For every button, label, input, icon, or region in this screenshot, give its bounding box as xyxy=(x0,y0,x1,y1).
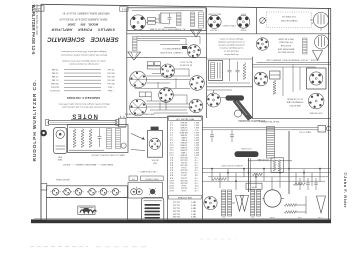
male plug label xyxy=(299,131,311,134)
tone box pot xyxy=(121,143,126,148)
relay divider xyxy=(252,118,330,120)
svg-text:C-27 FILTER: C-27 FILTER xyxy=(241,147,252,149)
socket 6V6 xyxy=(237,15,250,28)
row B wires xyxy=(146,95,189,113)
svg-text:socket diagrams shown at: socket diagrams shown at xyxy=(219,47,243,50)
phantom pot xyxy=(260,18,266,24)
svg-text:200 V: 200 V xyxy=(193,133,199,135)
svg-text:6V6GT: 6V6GT xyxy=(240,28,247,30)
svg-text:200-220: 200-220 xyxy=(173,209,180,211)
motor unit box xyxy=(147,131,162,158)
capacitor C7 xyxy=(298,178,302,190)
filter slab label xyxy=(241,147,252,149)
switch boxes xyxy=(148,17,156,24)
svg-text:TWIN SOCKETS: TWIN SOCKETS xyxy=(222,24,236,26)
svg-text:400 Volt: 400 Volt xyxy=(107,71,115,74)
parts table header xyxy=(169,117,202,121)
svg-text:8 MFD: 8 MFD xyxy=(180,138,186,140)
svg-text:C-13: C-13 xyxy=(169,151,173,153)
resistor R7 xyxy=(284,211,296,214)
svg-text:TAP 3: TAP 3 xyxy=(191,207,196,210)
svg-text:CONNECT FOR A SPKR.: CONNECT FOR A SPKR. xyxy=(159,51,183,54)
svg-text:16 MFD: 16 MFD xyxy=(180,149,187,151)
svg-text:©John F. Rider: ©John F. Rider xyxy=(343,173,348,209)
svg-text:250,000: 250,000 xyxy=(180,181,187,183)
page number stamp top-left xyxy=(33,6,45,11)
svg-text:.02 MFD: .02 MFD xyxy=(180,141,188,143)
relay bottom label xyxy=(309,111,322,113)
svg-text:TOP VIEW OF: TOP VIEW OF xyxy=(281,15,296,17)
socket 6V6 labels xyxy=(240,13,247,31)
svg-text:Letters on socket diagrams ref: Letters on socket diagrams refer to list… xyxy=(62,59,106,62)
relay caption xyxy=(260,120,279,123)
end shield view xyxy=(54,128,67,154)
main vertical feeders xyxy=(249,131,290,194)
svg-text:220-240: 220-240 xyxy=(173,212,180,214)
tone box wires xyxy=(69,127,126,150)
svg-text:C-31: C-31 xyxy=(318,216,322,218)
svg-text:— MOTOR BOARD —: — MOTOR BOARD — xyxy=(138,170,158,173)
svg-text:400 V: 400 V xyxy=(193,154,199,156)
notes AVERAGE DC VOLTAGES xyxy=(67,96,100,100)
svg-text:006 Mfd: 006 Mfd xyxy=(50,82,58,84)
capacitor C6 xyxy=(230,130,234,142)
motor board knob pair xyxy=(131,187,143,195)
svg-text:and storage of component parts: and storage of component parts xyxy=(69,63,98,66)
transformer T1 windings xyxy=(177,12,195,27)
svg-text:ALL DC VOLT.: ALL DC VOLT. xyxy=(179,61,192,64)
svg-text:TAP 2: TAP 2 xyxy=(191,204,196,207)
svg-text:2 W: 2 W xyxy=(195,184,199,186)
louver box xyxy=(142,198,164,221)
svg-text:R-6: R-6 xyxy=(170,169,173,171)
power column dividers xyxy=(207,34,253,119)
svg-text:RADIO & TONE CONTROL CIRCUIT: RADIO & TONE CONTROL CIRCUIT xyxy=(91,153,125,156)
tone box resistors xyxy=(73,129,92,148)
svg-text:500,000: 500,000 xyxy=(180,159,187,161)
svg-text:125-135: 125-135 xyxy=(173,207,180,209)
row A terminal boxes xyxy=(147,62,160,69)
row A tube V8 xyxy=(190,76,205,91)
front view caption xyxy=(56,178,70,180)
power box label xyxy=(148,27,185,30)
capacitor C1 xyxy=(168,13,172,24)
choke coil xyxy=(303,38,308,54)
control label boxes xyxy=(129,176,163,181)
svg-text:.25 MFD: .25 MFD xyxy=(180,154,188,156)
svg-text:R-9: R-9 xyxy=(170,176,173,178)
svg-text:450 V: 450 V xyxy=(193,138,199,140)
parts table rows xyxy=(169,121,200,193)
motor board box xyxy=(128,182,162,198)
bus taps xyxy=(212,169,320,190)
svg-text:R-8: R-8 xyxy=(170,174,173,176)
svg-text:RUDOLPH WURLITZER CO.: RUDOLPH WURLITZER CO. xyxy=(32,79,38,161)
band2 lower divider xyxy=(127,56,207,58)
rect area top wires xyxy=(252,65,330,97)
schematic caption xyxy=(239,119,266,122)
svg-text:½ 6SQ7GT: ½ 6SQ7GT xyxy=(209,28,219,32)
svg-text:NOTES BELOW: NOTES BELOW xyxy=(277,51,294,53)
svg-text:TAP 1: TAP 1 xyxy=(191,201,196,204)
svg-text:400 V: 400 V xyxy=(193,143,199,145)
page frame xyxy=(31,4,331,223)
svg-text:TAP 5: TAP 5 xyxy=(191,212,196,215)
svg-text:½ Watt: ½ Watt xyxy=(107,89,114,93)
margin label WURLITZER PAGE 12-5 xyxy=(31,5,36,56)
svg-text:240-260: 240-260 xyxy=(173,215,180,217)
svg-text:UNIT: UNIT xyxy=(152,161,157,163)
svg-text:C-11: C-11 xyxy=(170,146,174,148)
svg-text:A-1: A-1 xyxy=(121,7,126,11)
motor board caption xyxy=(138,170,158,173)
panel body xyxy=(47,198,128,221)
svg-text:½ Watt: ½ Watt xyxy=(107,86,114,90)
svg-text:MODEL 580,581,301,800: MODEL 580,581,301,800 xyxy=(35,5,39,36)
svg-text:R-2: R-2 xyxy=(170,159,173,161)
svg-text:25 Volt: 25 Volt xyxy=(107,68,114,71)
svg-text:.02 MFD: .02 MFD xyxy=(180,123,188,125)
svg-text:.01 MFD: .01 MFD xyxy=(180,126,188,128)
row A tube V6 with cross xyxy=(130,71,147,88)
svg-text:.01 MFD: .01 MFD xyxy=(180,143,188,145)
svg-text:this page below: this page below xyxy=(224,53,239,56)
motor board dark knob xyxy=(149,188,156,195)
motor rotor xyxy=(149,138,160,149)
svg-text:05 Mfd: 05 Mfd xyxy=(51,71,58,73)
output ladder transformer xyxy=(267,127,275,159)
line voltage subtable header xyxy=(169,195,202,199)
parts table frame xyxy=(168,116,203,219)
mid box top rails xyxy=(202,128,318,130)
middle instructions text xyxy=(218,37,245,56)
tube V5 xyxy=(315,35,329,49)
svg-text:C-5: C-5 xyxy=(170,131,173,133)
rear view caption xyxy=(62,163,113,166)
svg-text:450 V: 450 V xyxy=(193,136,199,138)
svg-text:R-4: R-4 xyxy=(169,164,173,166)
capacitor C4 xyxy=(236,62,240,82)
svg-text:400 Volt: 400 Volt xyxy=(107,79,115,82)
svg-text:R-12: R-12 xyxy=(169,184,173,186)
svg-text:C-7: C-7 xyxy=(170,136,173,138)
header line MODEL 580 xyxy=(67,23,98,27)
relay resistor xyxy=(273,80,276,94)
resistor R2 xyxy=(243,63,246,80)
svg-text:8 MFD: 8 MFD xyxy=(180,136,186,138)
svg-text:1 W: 1 W xyxy=(195,166,199,168)
svg-text:.006 MFD: .006 MFD xyxy=(179,131,188,133)
svg-text:.1 MFD: .1 MFD xyxy=(180,151,187,153)
power transformer box xyxy=(209,61,223,81)
svg-text:RELAY MOUNTING: RELAY MOUNTING xyxy=(260,120,279,123)
tube V4 xyxy=(256,38,268,50)
tone control box xyxy=(68,125,128,153)
svg-text:VIEW: VIEW xyxy=(57,158,62,160)
svg-text:FILTER & OUTPUT UNIT: FILTER & OUTPUT UNIT xyxy=(220,164,242,166)
row B tube V10 xyxy=(159,88,174,103)
svg-text:AMPLIFIER SERIAL NUMBERS 801: AMPLIFIER SERIAL NUMBERS 801 & UP BY xyxy=(62,11,110,14)
motor captions xyxy=(151,159,158,164)
b-plus line xyxy=(248,158,292,161)
socket 6SQ7 labels xyxy=(207,13,221,33)
relay coil boxes xyxy=(270,71,281,79)
svg-text:C-6: C-6 xyxy=(170,133,173,135)
power column wires xyxy=(207,59,253,83)
output transformer T2 xyxy=(222,190,232,216)
panel emblem xyxy=(78,206,97,214)
svg-text:C-2: C-2 xyxy=(170,123,173,125)
svg-text:.05 MFD: .05 MFD xyxy=(180,146,188,148)
svg-text:NOTES: NOTES xyxy=(71,113,98,119)
svg-text:accepted equipment noted at: accepted equipment noted at xyxy=(218,43,245,46)
capacitor C2 dark label xyxy=(182,46,187,49)
svg-text:25,000: 25,000 xyxy=(181,161,187,163)
svg-text:Measure all DC voltages from c: Measure all DC voltages from chassis wit… xyxy=(58,102,109,105)
line voltage rows xyxy=(173,201,196,219)
row bottom line xyxy=(127,117,168,119)
resistor R1 xyxy=(159,13,162,23)
svg-text:25 Mfd: 25 Mfd xyxy=(51,68,58,70)
svg-text:AT SOCKETS: AT SOCKETS xyxy=(179,63,192,66)
svg-text:TAP 4: TAP 4 xyxy=(190,209,196,212)
svg-text:.05 MFD: .05 MFD xyxy=(180,133,188,135)
svg-text:AMPLIFIER SOCKET VOLTAGES: AMPLIFIER SOCKET VOLTAGES xyxy=(124,113,154,116)
svg-text:T-2: T-2 xyxy=(252,216,255,218)
speaker funnel xyxy=(128,52,141,60)
svg-text:.05 MFD: .05 MFD xyxy=(180,121,188,123)
svg-text:115-125: 115-125 xyxy=(173,204,180,206)
svg-text:01 Mfd: 01 Mfd xyxy=(51,79,58,81)
capacitor C8 xyxy=(306,178,310,190)
bottom wires xyxy=(232,196,306,214)
end shield label xyxy=(57,155,62,160)
svg-text:250,000: 250,000 xyxy=(180,169,187,171)
speaker circle xyxy=(264,190,281,207)
notes value list xyxy=(50,68,115,93)
svg-text:60 CYCLE RELAY: 60 CYCLE RELAY xyxy=(286,98,303,101)
svg-text:HELP IN CASE: HELP IN CASE xyxy=(278,37,294,40)
scan artifact dashes xyxy=(30,239,236,247)
phantom wires xyxy=(265,21,313,25)
svg-text:REAR VIEW —— AMPLIFIER CHASSIS: REAR VIEW —— AMPLIFIER CHASSIS —— FRONT xyxy=(62,163,113,166)
funnel right xyxy=(317,196,326,213)
field coil ladder xyxy=(133,37,138,51)
row B terminal boxes xyxy=(139,92,151,97)
resistor R6 xyxy=(284,204,296,207)
resistor R5 xyxy=(293,183,305,186)
socket chart dividers xyxy=(207,8,257,34)
svg-text:BOTTOM VIEW: BOTTOM VIEW xyxy=(309,111,322,113)
svg-text:105-115: 105-115 xyxy=(173,201,180,203)
svg-text:per volt meter with the line a: per volt meter with the line at 115 volt… xyxy=(62,106,107,109)
svg-text:C-1: C-1 xyxy=(170,121,173,123)
svg-text:150 V: 150 V xyxy=(193,149,199,151)
svg-text:OPERATING DATA: OPERATING DATA xyxy=(286,101,303,104)
svg-text:6SQ7 SOCKET: 6SQ7 SOCKET xyxy=(207,13,221,15)
svg-text:50,000: 50,000 xyxy=(181,171,187,173)
svg-text:350 Ω: 350 Ω xyxy=(181,174,187,176)
svg-text:400 V: 400 V xyxy=(193,126,199,128)
row B caption xyxy=(124,113,154,116)
svg-text:C-4: C-4 xyxy=(169,128,173,130)
relay socket bottom view xyxy=(308,93,324,109)
svg-text:C-10: C-10 xyxy=(169,143,173,145)
svg-text:10,000: 10,000 xyxy=(181,176,187,178)
svg-text:400 V: 400 V xyxy=(193,123,199,125)
row B tube V9 with cross xyxy=(130,99,147,116)
svg-text:R-13: R-13 xyxy=(169,186,173,188)
svg-text:as measured by the standard: as measured by the standard xyxy=(218,40,245,43)
svg-text:END: END xyxy=(57,155,62,157)
svg-text:400 Volt: 400 Volt xyxy=(107,75,115,78)
bus wires xyxy=(202,169,330,182)
svg-text:25 MFD: 25 MFD xyxy=(180,128,187,130)
filter wires xyxy=(207,90,232,98)
wires power box xyxy=(132,11,203,28)
chassis plug xyxy=(119,116,126,127)
filter slab xyxy=(235,151,259,157)
band divider line xyxy=(127,33,331,35)
svg-text:VOL: VOL xyxy=(131,177,135,179)
stamp top-right of header xyxy=(120,7,129,12)
notes paragraph 1 xyxy=(60,50,107,56)
rectifier tube V13 xyxy=(254,72,268,86)
filter tube V12 xyxy=(207,93,221,107)
svg-text:SPKR: SPKR xyxy=(269,216,275,218)
resistor R4 xyxy=(252,173,262,176)
svg-text:MOTOR: MOTOR xyxy=(151,159,158,161)
svg-text:SPKR: SPKR xyxy=(251,185,257,187)
candohm diagonal resistor xyxy=(233,99,252,120)
header title SERVICE SCHEMATIC xyxy=(47,36,119,43)
tube V3 xyxy=(187,45,200,58)
socket chart center label xyxy=(222,24,236,26)
svg-text:C-9: C-9 xyxy=(170,141,173,143)
capacitor C9 xyxy=(314,178,318,190)
output tube V14 xyxy=(204,196,217,209)
svg-text:3,500: 3,500 xyxy=(182,184,187,186)
header line SIMPLEX POWER AMPLIFIER xyxy=(51,27,115,31)
electrolytic slab xyxy=(226,95,245,100)
svg-text:(SPEAKER FIELD 2): (SPEAKER FIELD 2) xyxy=(162,47,181,50)
svg-text:25 V: 25 V xyxy=(194,128,199,130)
svg-text:TAP 6: TAP 6 xyxy=(191,215,196,218)
svg-text:400 V: 400 V xyxy=(193,121,199,123)
row B tube V11 xyxy=(189,99,203,113)
bias resistor box xyxy=(271,158,283,172)
male plug connector xyxy=(318,125,331,132)
motor arrows xyxy=(131,134,145,151)
svg-text:AMPLIFIER SEE: AMPLIFIER SEE xyxy=(277,47,294,50)
svg-text:600 V: 600 V xyxy=(193,131,199,133)
svg-text:1,500: 1,500 xyxy=(182,189,187,191)
svg-text:400 V: 400 V xyxy=(193,151,199,153)
svg-text:1 W: 1 W xyxy=(195,174,199,176)
help divider xyxy=(257,62,331,64)
phantom tube V2 xyxy=(310,12,329,30)
svg-text:R-7: R-7 xyxy=(170,171,173,173)
svg-text:R-11: R-11 xyxy=(170,181,174,183)
svg-text:½ W: ½ W xyxy=(194,189,198,193)
header line amplifier numbers xyxy=(62,11,110,14)
svg-text:25,000: 25,000 xyxy=(181,186,187,188)
phantom text xyxy=(280,15,297,22)
svg-text:SIMPLEX POWER AMPLIFIER: SIMPLEX POWER AMPLIFIER xyxy=(51,27,115,31)
relay box top view xyxy=(307,68,327,89)
tone box capacitor xyxy=(98,129,102,148)
svg-text:T-1: T-1 xyxy=(223,216,226,218)
funnel below V5 xyxy=(313,51,323,61)
power section divider xyxy=(207,86,253,88)
tube V1 xyxy=(130,15,145,30)
svg-text:LINE VOLTAGE: LINE VOLTAGE xyxy=(177,196,192,199)
svg-text:CAUTION — DO NOT OPERATE WITHO: CAUTION — DO NOT OPERATE WITHOUT SPEAKER… xyxy=(266,58,319,61)
bottom labels xyxy=(223,216,322,218)
motor dark label xyxy=(151,127,159,130)
svg-text:(FRONT VIEW): (FRONT VIEW) xyxy=(56,178,70,180)
svg-text:SEE NOTE 2: SEE NOTE 2 xyxy=(289,104,300,106)
svg-text:02 Mfd: 02 Mfd xyxy=(51,75,58,77)
header line serial numbers xyxy=(59,17,107,20)
tone box windings xyxy=(107,129,121,149)
copyright John F. Rider xyxy=(343,173,348,209)
panel small box left xyxy=(41,183,47,190)
svg-text:500,000: 500,000 xyxy=(180,179,187,181)
speaker section wires xyxy=(137,36,200,44)
margin ornament dot xyxy=(40,130,47,137)
svg-text:WITH THE: WITH THE xyxy=(280,44,291,46)
knob strip xyxy=(47,186,128,198)
caution line xyxy=(266,58,319,61)
svg-text:200 V: 200 V xyxy=(193,146,199,148)
svg-text:C-8: C-8 xyxy=(170,138,173,140)
margin label RUDOLPH WURLITZER CO. xyxy=(32,79,38,161)
svg-text:R-1: R-1 xyxy=(170,156,173,158)
svg-text:TONE CONTROL: TONE CONTROL xyxy=(145,177,159,179)
svg-text:SERVICE SCHEMATIC: SERVICE SCHEMATIC xyxy=(47,36,119,43)
phantom dashed box xyxy=(267,12,312,28)
louver slats xyxy=(144,204,160,219)
socket 6SQ7 xyxy=(208,15,221,28)
svg-text:A.C. POWER SUPPLY CIRCUIT TO A: A.C. POWER SUPPLY CIRCUIT TO AMPL. xyxy=(148,27,185,30)
row A wires xyxy=(135,69,190,89)
chassis tube side view xyxy=(46,119,119,125)
svg-text:MALE PLUG: MALE PLUG xyxy=(299,131,311,134)
power circuit box xyxy=(127,8,206,31)
capacitor C5 xyxy=(210,130,214,142)
svg-text:100,000: 100,000 xyxy=(180,164,187,166)
svg-text:MODEL 580 12000: MODEL 580 12000 xyxy=(67,23,98,27)
svg-text:Voltages read with a 1000 ohm: Voltages read with a 1000 ohm per volt v… xyxy=(61,50,106,53)
terminal box xyxy=(246,183,262,189)
svg-text:AVERAGE D.C. VOLTAGES: AVERAGE D.C. VOLTAGES xyxy=(67,96,100,100)
svg-text:B PLUS LEAD: B PLUS LEAD xyxy=(257,158,269,161)
svg-text:2,000: 2,000 xyxy=(182,166,187,168)
tube funnels xyxy=(236,196,249,212)
svg-text:PART VALUES LIST: PART VALUES LIST xyxy=(175,118,194,121)
svg-text:between the socket contacts an: between the socket contacts and the chas… xyxy=(60,53,107,56)
row A note text xyxy=(179,61,192,67)
tone box label xyxy=(91,153,125,156)
output transformer T3 xyxy=(251,190,261,216)
column divider line xyxy=(126,8,128,119)
panel knobs xyxy=(50,189,120,196)
junction dots xyxy=(211,168,321,182)
notes paragraph 2 xyxy=(62,59,106,65)
mid box caption xyxy=(220,164,242,166)
svg-text:R-5: R-5 xyxy=(170,166,173,168)
